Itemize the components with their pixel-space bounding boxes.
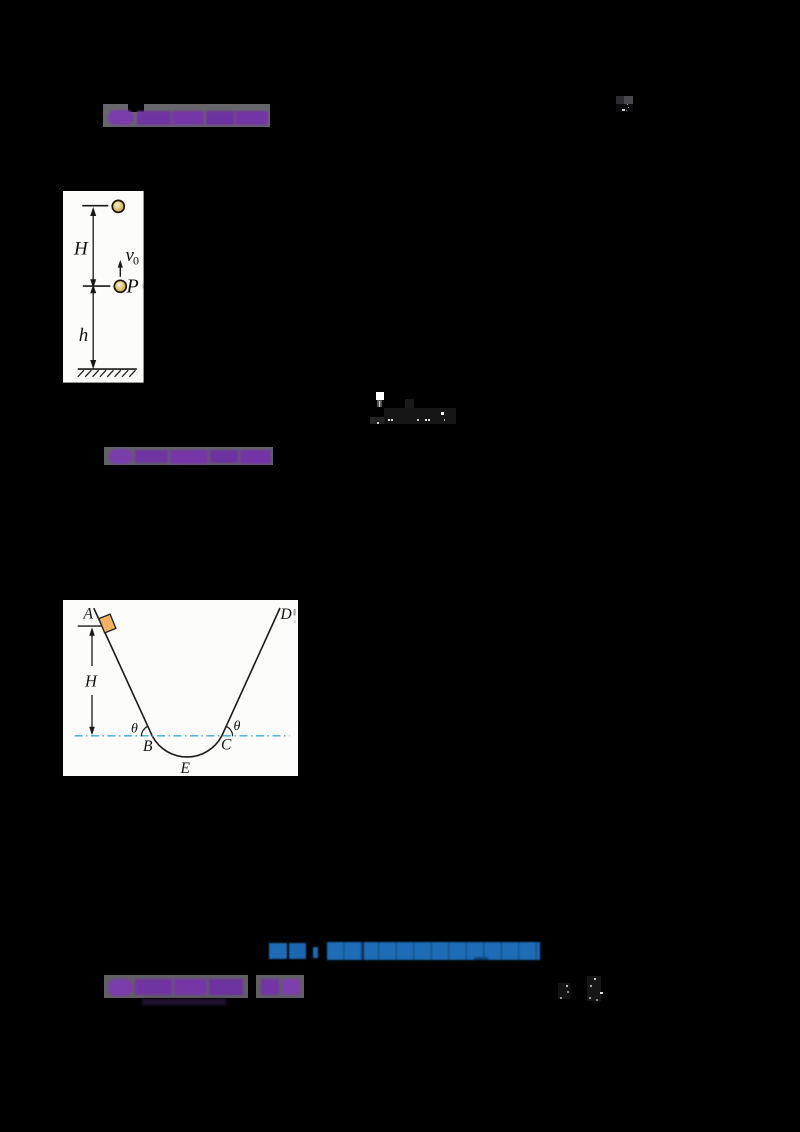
heading 2 gray highlight box: [104, 447, 273, 466]
svg-text:A: A: [82, 605, 93, 622]
gray tick at box edge right of P: [143, 285, 144, 289]
white panel: [63, 600, 298, 776]
diagram 2 : valley figure: [63, 600, 298, 776]
short horizontal line at A: [77, 625, 102, 627]
valley path A-B-E-C-D: [93, 608, 279, 757]
middle reference line: [83, 285, 110, 287]
svg-text:C: C: [221, 736, 232, 753]
heading 2 purple text blobs: [109, 449, 271, 464]
ball P: [114, 281, 126, 293]
heading 1 purple text blobs: [108, 110, 268, 125]
gray tick right of D: [293, 609, 295, 616]
v0 arrow: [119, 263, 121, 277]
svg-text:h: h: [79, 325, 89, 346]
heading 1 gray highlight box: [103, 104, 271, 127]
heading 1 black notch: [128, 104, 144, 112]
H dimension arrow: [89, 627, 95, 636]
diagram 1 : falling ball figure: [63, 191, 144, 383]
block on slope: [98, 614, 115, 633]
theta arc at B: [141, 726, 147, 736]
white panel: [63, 191, 144, 383]
svg-text:B: B: [143, 738, 153, 755]
lower dimension arrow (h): [92, 291, 94, 365]
svg-text:P: P: [126, 276, 139, 298]
svg-text:θ: θ: [233, 719, 240, 734]
tiny math fragment top right: [616, 96, 633, 113]
bottom purple bar 1: [104, 975, 248, 998]
cyan dash-dot level line: [74, 734, 289, 736]
top ball: [112, 201, 124, 213]
upper dimension arrow (H): [92, 211, 94, 283]
ground hatching: [78, 370, 136, 377]
ground line: [78, 368, 137, 370]
theta arc at C: [226, 726, 232, 736]
svg-text:D: D: [279, 606, 291, 623]
svg-text:E: E: [179, 760, 190, 776]
blue summary line: [269, 941, 541, 961]
svg-text:H: H: [84, 671, 98, 690]
faint formula row under diagram 1: [370, 391, 460, 425]
top reference line: [82, 205, 108, 207]
svg-text:0: 0: [133, 254, 139, 268]
svg-text:H: H: [73, 239, 89, 260]
bottom purple bar 2: [256, 975, 305, 998]
svg-text:θ: θ: [131, 721, 138, 736]
faint purple descender text under bar 1: [142, 999, 226, 1005]
faint math glyphs bottom right: [556, 975, 606, 1001]
